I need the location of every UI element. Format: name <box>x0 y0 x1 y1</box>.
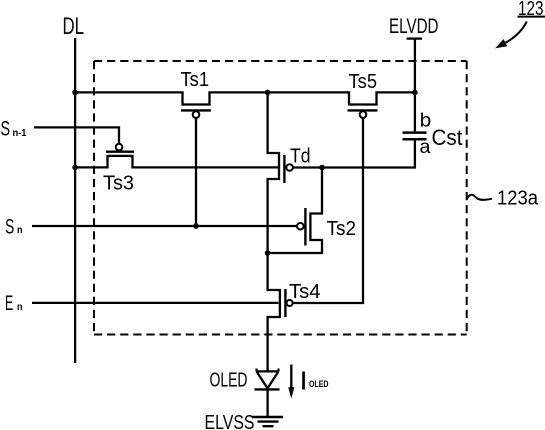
OLED diode cathode bar <box>255 388 280 390</box>
current arrow I_OLED <box>290 365 292 390</box>
svg-text:Td: Td <box>290 145 311 167</box>
node dot DL x top rail <box>72 90 78 96</box>
transistor Ts2 gate bar <box>304 208 306 246</box>
wire Ts5 gate down to Ts4 gate <box>293 118 363 303</box>
svg-text:Ts4: Ts4 <box>289 281 321 303</box>
svg-text:Ts5: Ts5 <box>349 71 378 93</box>
wire cathode to ground <box>266 389 268 417</box>
svg-text:S: S <box>1 117 11 141</box>
svg-text:n-1: n-1 <box>13 128 27 139</box>
driving transistor Td gate bubble <box>286 164 293 171</box>
node dot Ts2 source x main column <box>265 250 271 256</box>
emission line En wire <box>32 302 279 304</box>
top rail wire with Ts1 and Ts5 channel steps <box>75 92 415 104</box>
wire Ts1 gate to Sn row <box>195 118 197 226</box>
driving transistor Td gate bar <box>283 155 285 183</box>
node dot DL x Ts3 row <box>72 165 78 171</box>
transistor Ts4 gate bar <box>284 289 286 317</box>
transistor Ts1 gate bubble <box>193 111 200 118</box>
svg-text:OLED: OLED <box>309 379 329 390</box>
svg-text:Ts3: Ts3 <box>103 172 134 194</box>
scan line Sn-1 wire <box>34 127 119 143</box>
transistor Ts5 gate bar <box>348 109 378 111</box>
transistor Ts3 gate bar <box>106 150 134 152</box>
ground symbol ELVSS <box>253 416 284 419</box>
transistor Ts1 gate bar <box>181 109 211 111</box>
svg-text:Ts1: Ts1 <box>181 69 210 91</box>
svg-text:b: b <box>420 110 432 132</box>
leader arrow from 123 <box>506 22 527 43</box>
svg-text:Cst: Cst <box>432 125 464 150</box>
wire Ts3 row from DL to Td with channel step <box>75 156 278 168</box>
svg-text:DL: DL <box>63 13 85 40</box>
label 123a with squiggle leader <box>467 195 492 200</box>
data line DL (vertical wire) <box>74 38 76 363</box>
label I OLED <box>302 372 305 390</box>
main column wire with Td and Ts4 channel steps <box>268 92 280 371</box>
wire Cst top lead <box>414 92 416 131</box>
ELVDD supply wire <box>414 39 416 94</box>
svg-text:OLED: OLED <box>210 369 248 392</box>
svg-text:E: E <box>5 292 13 315</box>
ELVDD terminal bar <box>407 37 423 39</box>
node dot main column x top rail <box>265 90 271 96</box>
transistor Ts5 gate bubble <box>360 111 367 118</box>
node dot ELVDD x top rail <box>412 90 418 96</box>
dashed pixel boundary box 123a <box>94 61 467 335</box>
svg-text:ELVSS: ELVSS <box>205 411 255 430</box>
svg-text:a: a <box>420 136 431 158</box>
node dot Ts1 gate x Sn row <box>193 223 199 229</box>
capacitor Cst plate b <box>403 131 427 134</box>
scan line Sn wire <box>32 225 297 227</box>
node dot Ts2 drain tap <box>319 165 325 171</box>
OLED diode anode bar with serifs <box>257 369 279 372</box>
svg-text:ELVDD: ELVDD <box>389 14 439 38</box>
transistor Ts2 channel path and source wire <box>268 168 322 254</box>
transistor Ts4 gate bubble <box>287 300 293 306</box>
svg-text:S: S <box>5 216 14 239</box>
wire Td gate row to Cst plate a <box>293 140 415 167</box>
svg-text:n: n <box>17 302 23 313</box>
svg-text:n: n <box>17 225 23 236</box>
svg-text:123a: 123a <box>497 188 539 210</box>
OLED diode triangle <box>257 371 279 388</box>
transistor Ts2 gate bubble <box>297 223 304 230</box>
transistor Ts3 gate bubble <box>116 144 123 151</box>
capacitor Cst plate a <box>403 138 427 141</box>
svg-text:Ts2: Ts2 <box>327 218 357 240</box>
